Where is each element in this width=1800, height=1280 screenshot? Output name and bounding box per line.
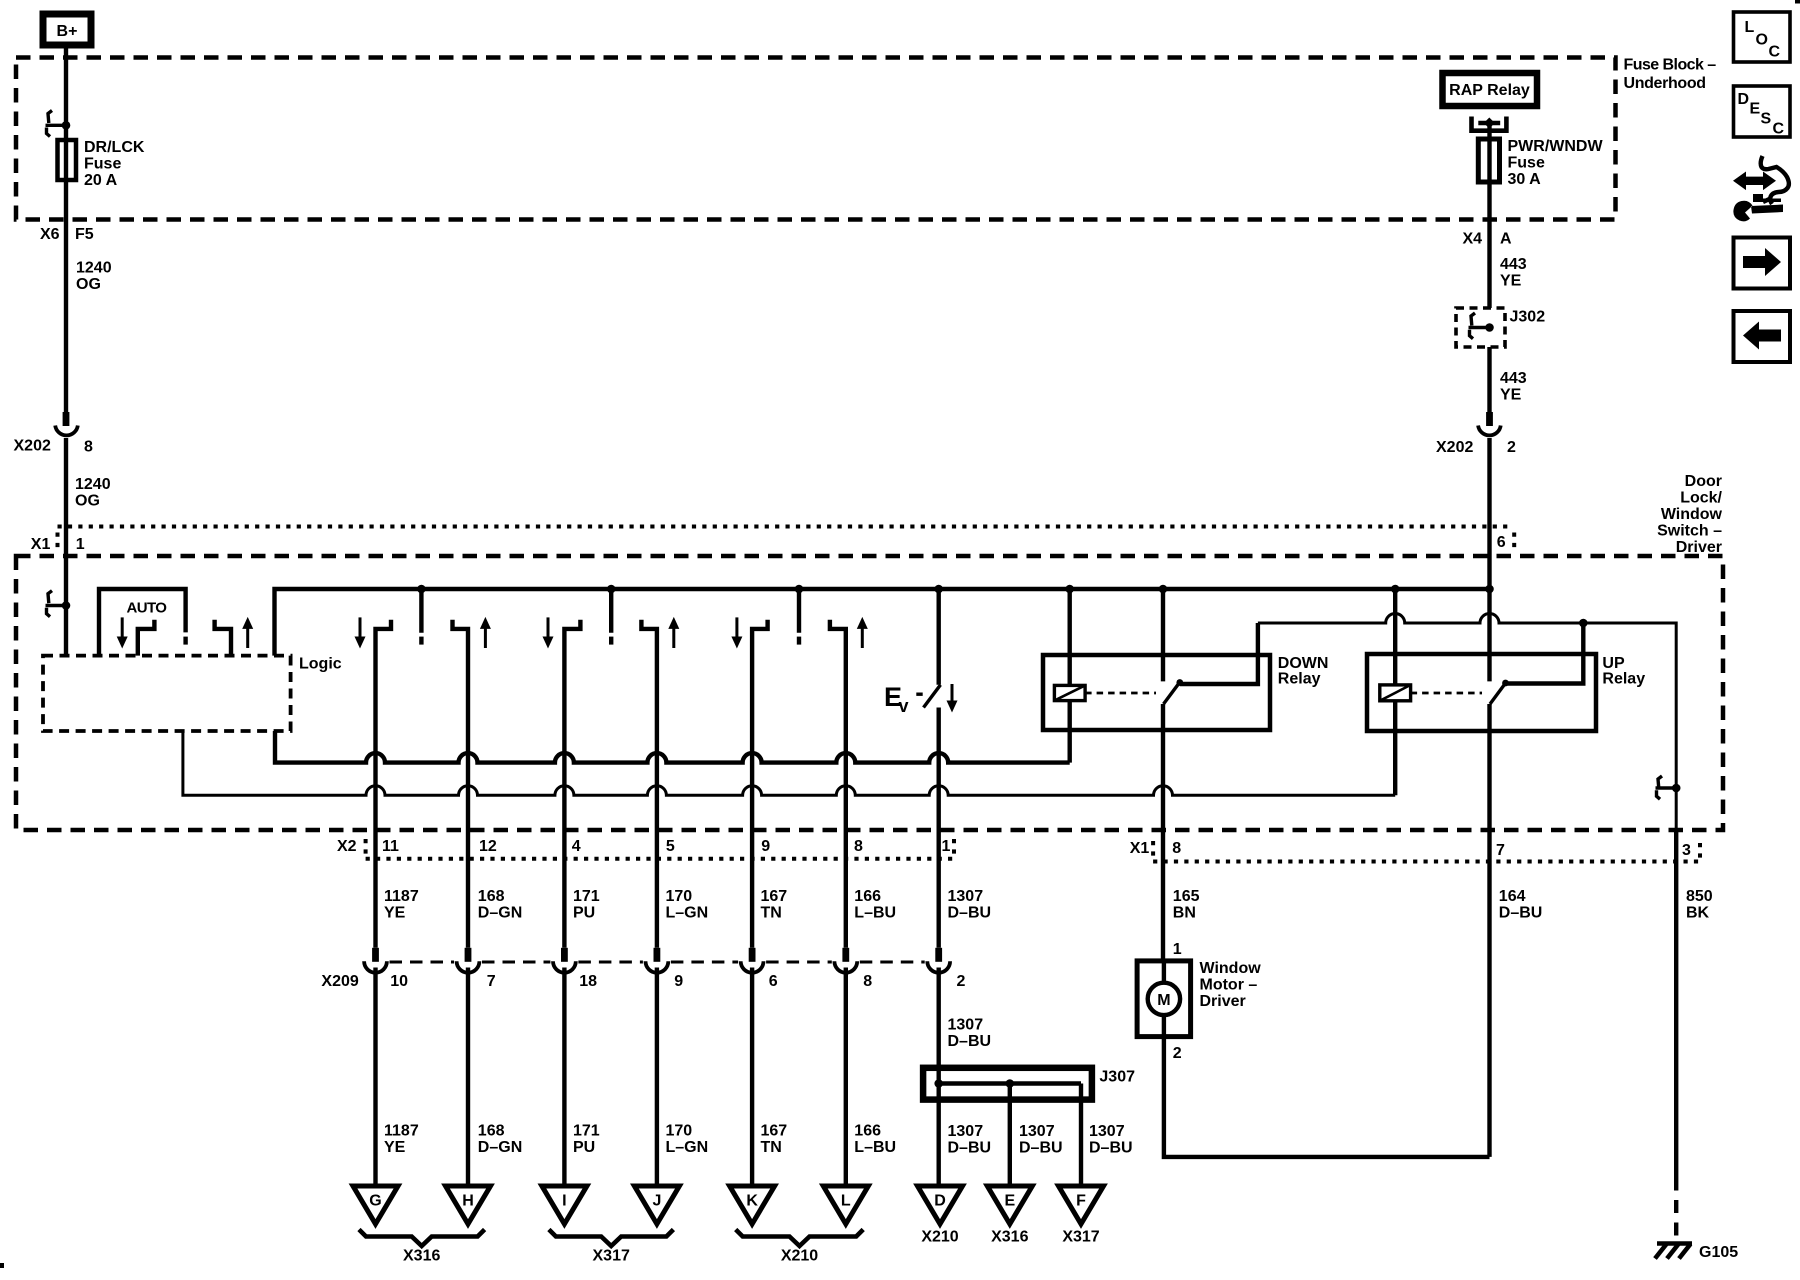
wire label 850 BK	[1686, 888, 1713, 922]
connector X209 pin 18	[553, 948, 597, 990]
svg-text:Logic: Logic	[299, 656, 342, 673]
connector X209 pin 6	[741, 948, 778, 990]
svg-text:X2: X2	[337, 838, 357, 855]
svg-text:1307: 1307	[948, 888, 984, 905]
svg-text:171: 171	[573, 1123, 600, 1140]
svg-text:1: 1	[76, 536, 85, 553]
arrow down (switch 3)	[731, 617, 742, 648]
connector X1 bottom row	[1130, 840, 1700, 862]
switch 2 up contact to X2-5	[641, 620, 657, 948]
wire X209-18 to I	[562, 968, 566, 1187]
svg-text:Driver: Driver	[1200, 993, 1246, 1010]
svg-text:Fuse Block –: Fuse Block –	[1624, 57, 1717, 74]
svg-text:B+: B+	[57, 23, 78, 40]
svg-text:OG: OG	[75, 493, 100, 510]
svg-text:J: J	[652, 1193, 661, 1210]
wire label 167 TN (upper)	[761, 888, 788, 922]
svg-text:Relay: Relay	[1602, 671, 1645, 688]
DOWN relay NC contact to ground link	[1180, 623, 1258, 684]
nav icon DESC	[1734, 86, 1791, 138]
svg-text:5: 5	[666, 838, 675, 855]
terminal triangle F	[1059, 1186, 1104, 1224]
connector X1 top row (dotted)	[31, 527, 1514, 554]
svg-text:1307: 1307	[1089, 1123, 1125, 1140]
AUTO switch frame	[99, 589, 186, 656]
svg-text:PU: PU	[573, 1139, 595, 1156]
svg-text:C: C	[1773, 121, 1785, 138]
svg-text:1307: 1307	[948, 1123, 984, 1140]
terminal triangle E	[987, 1186, 1032, 1224]
svg-text:C: C	[1769, 44, 1781, 61]
battery feed B+	[43, 14, 91, 45]
svg-text:166: 166	[854, 1123, 881, 1140]
svg-text:2: 2	[1173, 1045, 1182, 1062]
wire X209-10 to G	[373, 968, 377, 1187]
brace X317	[549, 1230, 674, 1265]
wire: B+ to fuse DR/LCK	[64, 45, 68, 140]
svg-text:TN: TN	[761, 905, 782, 922]
wire label 1307 D-BU (bottom, F)	[1089, 1123, 1133, 1157]
DOWN relay coil	[1054, 685, 1085, 700]
arrow down (express)	[947, 684, 958, 713]
svg-text:D–GN: D–GN	[478, 905, 522, 922]
terminal triangle G	[353, 1186, 398, 1224]
arrow down (switch 2)	[543, 617, 554, 648]
ground link line	[1258, 614, 1676, 831]
svg-text:RAP Relay: RAP Relay	[1449, 82, 1530, 99]
svg-text:PWR/WNDW: PWR/WNDW	[1508, 138, 1604, 155]
svg-text:L–BU: L–BU	[854, 905, 896, 922]
UP relay NC contact to ground link	[1506, 623, 1584, 684]
svg-text:E: E	[1004, 1193, 1015, 1210]
svg-text:DOWN: DOWN	[1278, 655, 1329, 672]
connector X4 pin A labels	[1463, 231, 1513, 248]
wire X209-2 to D	[937, 968, 941, 1187]
wire 1240 OG: X202 to switch assembly	[64, 438, 68, 656]
DOWN relay label	[1278, 655, 1329, 688]
svg-text:6: 6	[769, 973, 778, 990]
wire: DOWN relay output to motor (165 BN)	[1161, 704, 1165, 961]
svg-text:443: 443	[1500, 256, 1527, 273]
svg-text:X1: X1	[1130, 840, 1150, 857]
arrow down (switch 1)	[355, 617, 366, 648]
switch 2 pole	[609, 589, 613, 645]
terminal triangle I	[542, 1186, 587, 1224]
svg-text:X316: X316	[403, 1248, 440, 1265]
svg-text:Fuse: Fuse	[84, 156, 121, 173]
wire X209-7 to H	[466, 968, 470, 1187]
svg-text:168: 168	[478, 1123, 505, 1140]
UP relay coil to lower bus	[1393, 701, 1397, 796]
window motor driver	[1137, 961, 1191, 1037]
svg-text:L–GN: L–GN	[666, 905, 709, 922]
DOWN relay actuation link (dashed)	[1085, 692, 1156, 695]
wire label 170 L-GN (lower)	[666, 1123, 709, 1157]
svg-text:Relay: Relay	[1278, 671, 1321, 688]
svg-text:20 A: 20 A	[84, 172, 118, 189]
arrow up (switch 3)	[857, 617, 868, 648]
wire X209-6 to K	[750, 968, 754, 1187]
clip on 1240 OG inside switch	[46, 591, 71, 617]
svg-text:8: 8	[863, 973, 872, 990]
svg-text:12: 12	[479, 838, 497, 855]
nav icon next arrow	[1734, 238, 1791, 289]
junction dots on top bus	[417, 585, 1494, 594]
switch 3 down contact to X2-9	[752, 620, 768, 948]
fuse block underhood (dashed box)	[16, 58, 1616, 220]
svg-text:A: A	[1500, 231, 1512, 248]
wire: fuse to connector X202 pin 8	[64, 180, 68, 413]
wire 443 YE: X202 to UP relay fixed contact	[1487, 438, 1491, 681]
switch 1 down contact to X2-11	[376, 620, 392, 948]
svg-text:168: 168	[478, 888, 505, 905]
wire X209-9 to J	[655, 968, 659, 1187]
wire 443 YE: J302 to X202 pin 2	[1487, 347, 1491, 413]
upper bus: logic to DOWN relay coil	[275, 731, 1070, 763]
wire: motor pin 2 to UP relay output	[1164, 1037, 1490, 1157]
svg-text:AUTO: AUTO	[127, 600, 168, 617]
svg-text:D: D	[1738, 91, 1750, 108]
RAP relay output terminal brackets	[1472, 117, 1507, 141]
wire label 170 L-GN (upper)	[666, 888, 709, 922]
DOWN relay coil to upper bus	[1067, 701, 1071, 763]
svg-text:9: 9	[674, 973, 683, 990]
door lock / window switch - driver (dashed box)	[16, 556, 1723, 830]
X209 dashed connector line	[390, 961, 925, 964]
svg-text:UP: UP	[1602, 655, 1625, 672]
wire label 168 D-GN (upper)	[478, 888, 522, 922]
svg-text:L–GN: L–GN	[666, 1139, 709, 1156]
ground G105	[1655, 1244, 1738, 1262]
svg-text:v: v	[899, 696, 909, 716]
wire 850 BK to ground	[1674, 830, 1678, 1178]
svg-text:X210: X210	[781, 1248, 818, 1265]
connector X2 row	[337, 838, 954, 859]
svg-text:X317: X317	[1062, 1229, 1099, 1246]
AUTO up contact	[215, 620, 231, 656]
nav icon back arrow	[1734, 311, 1791, 362]
svg-text:X1: X1	[31, 536, 51, 553]
svg-text:170: 170	[666, 1123, 693, 1140]
wire label 167 TN (lower)	[761, 1123, 788, 1157]
svg-text:O: O	[1756, 32, 1768, 49]
wire label 443 YE (upper)	[1500, 256, 1527, 290]
svg-text:Lock/: Lock/	[1680, 490, 1722, 507]
fuse PWR/WNDW 30 A	[1478, 138, 1603, 188]
svg-text:2: 2	[957, 973, 966, 990]
connector X6 pin F5 labels	[40, 226, 94, 243]
connector X209 pin 2	[927, 948, 965, 990]
connector X209 pin 7	[457, 948, 496, 990]
terminal triangle K	[730, 1186, 775, 1224]
svg-text:D: D	[934, 1193, 946, 1210]
svg-text:4: 4	[572, 838, 581, 855]
page corner marks	[1795, 0, 1800, 4]
UP relay box	[1367, 654, 1596, 731]
svg-text:Switch –: Switch –	[1657, 523, 1722, 540]
arrow up (AUTO)	[242, 617, 253, 648]
wire label 1307 D-BU (upper)	[948, 888, 992, 922]
svg-text:Fuse: Fuse	[1508, 155, 1545, 172]
splice J302	[1456, 308, 1545, 347]
express-down switch Ev feed	[937, 589, 941, 685]
svg-text:Door: Door	[1685, 473, 1722, 490]
splice J307	[923, 1068, 1135, 1100]
brace X210	[736, 1230, 864, 1265]
svg-text:YE: YE	[384, 905, 406, 922]
svg-text:1187: 1187	[384, 1123, 419, 1140]
svg-text:164: 164	[1499, 888, 1526, 905]
svg-text:D–BU: D–BU	[948, 905, 992, 922]
connector X209 pin 9	[646, 948, 684, 990]
top supply bus	[275, 589, 1490, 656]
UP relay coil feed	[1393, 589, 1397, 685]
UP relay actuation link (dashed)	[1411, 692, 1482, 695]
dashed wire to G105	[1674, 1178, 1678, 1242]
wire label 171 PU (upper)	[573, 888, 600, 922]
wire label 168 D-GN (lower)	[478, 1123, 522, 1157]
wire label 1307 D-BU (bottom, E)	[1019, 1123, 1063, 1157]
svg-text:7: 7	[1496, 842, 1505, 859]
UP relay blade	[1490, 680, 1509, 704]
svg-text:2: 2	[1507, 439, 1516, 456]
svg-text:166: 166	[854, 888, 881, 905]
connector X202 pin 2	[1436, 412, 1516, 456]
svg-text:G: G	[369, 1193, 381, 1210]
svg-text:850: 850	[1686, 888, 1713, 905]
svg-text:11: 11	[382, 838, 399, 855]
svg-text:H: H	[462, 1193, 474, 1210]
clip on ground wire	[1656, 776, 1681, 799]
switch 3 pole	[797, 589, 801, 645]
svg-text:F: F	[1076, 1193, 1086, 1210]
terminal triangle H	[446, 1186, 491, 1224]
wire label 1240 OG (lower)	[75, 476, 111, 510]
arrow up (switch 1)	[480, 617, 491, 648]
junction dot ground link	[1579, 619, 1588, 628]
svg-text:10: 10	[390, 973, 408, 990]
svg-text:X6: X6	[40, 226, 60, 243]
svg-text:171: 171	[573, 888, 600, 905]
svg-text:1: 1	[942, 838, 951, 855]
svg-text:J307: J307	[1099, 1069, 1135, 1086]
switch 1 pole	[419, 589, 423, 645]
svg-text:D–BU: D–BU	[1019, 1140, 1063, 1157]
logic module (dashed box)	[43, 656, 342, 732]
brace X316	[359, 1230, 485, 1265]
DOWN relay coil feed	[1067, 589, 1071, 685]
svg-text:K: K	[746, 1193, 758, 1210]
svg-text:X210: X210	[921, 1229, 958, 1246]
terminal triangle L	[823, 1186, 868, 1224]
svg-text:BK: BK	[1686, 905, 1710, 922]
wire label 166 L-BU (upper)	[854, 888, 896, 922]
relay RAP Relay	[1443, 73, 1538, 106]
connector X202 pin 8	[14, 412, 94, 456]
nav icon diagnostics (arrows + wrench)	[1733, 156, 1789, 221]
clip on B+ feed	[46, 111, 71, 137]
wire X209-8 to L	[844, 968, 848, 1187]
svg-text:8: 8	[84, 439, 93, 456]
svg-text:1307: 1307	[948, 1017, 984, 1034]
svg-text:D–BU: D–BU	[1499, 905, 1543, 922]
svg-text:1: 1	[1173, 941, 1182, 958]
svg-text:X317: X317	[593, 1248, 630, 1265]
svg-text:167: 167	[761, 888, 788, 905]
svg-text:30 A: 30 A	[1508, 171, 1542, 188]
svg-text:165: 165	[1173, 888, 1200, 905]
UP relay coil	[1380, 685, 1411, 701]
svg-text:8: 8	[854, 838, 863, 855]
svg-text:443: 443	[1500, 370, 1527, 387]
svg-text:PU: PU	[573, 905, 595, 922]
svg-text:X202: X202	[1436, 439, 1473, 456]
svg-text:8: 8	[1172, 840, 1181, 857]
switch 1 up contact to X2-12	[453, 620, 469, 948]
svg-text:Motor –: Motor –	[1200, 977, 1258, 994]
connector X209 pin 8	[834, 948, 872, 990]
svg-text:L: L	[1745, 19, 1755, 36]
svg-text:170: 170	[666, 888, 693, 905]
terminal triangle D	[918, 1186, 963, 1224]
terminal triangle J	[634, 1186, 679, 1224]
wire label 1307 D-BU (mid, above J307)	[948, 1017, 992, 1051]
lower bus: logic to UP relay coil	[183, 731, 1395, 795]
svg-text:D–BU: D–BU	[948, 1140, 992, 1157]
svg-text:L: L	[841, 1193, 851, 1210]
label: Window Motor - Driver	[1200, 960, 1262, 1010]
svg-text:9: 9	[761, 838, 770, 855]
svg-text:1187: 1187	[384, 888, 419, 905]
svg-text:D–GN: D–GN	[478, 1139, 522, 1156]
svg-text:Window: Window	[1200, 960, 1262, 977]
svg-text:D–BU: D–BU	[1089, 1140, 1133, 1157]
wire J307 to E	[1008, 1084, 1012, 1187]
svg-text:E: E	[1750, 101, 1761, 118]
fuse DR/LCK 20 A	[58, 139, 145, 189]
wire label 166 L-BU (lower)	[854, 1123, 896, 1157]
connector X209 pin 10	[364, 948, 408, 990]
svg-text:J302: J302	[1510, 309, 1546, 326]
svg-text:X202: X202	[14, 438, 51, 455]
svg-text:Underhood: Underhood	[1624, 75, 1706, 92]
switch 3 up contact to X2-8	[830, 620, 846, 948]
wire label 171 PU (lower)	[573, 1123, 600, 1157]
svg-text:X4: X4	[1463, 231, 1483, 248]
nav icon LOC	[1734, 12, 1791, 62]
svg-text:YE: YE	[1500, 387, 1522, 404]
label: Door Lock/ Window Switch - Driver	[1657, 473, 1722, 556]
label: Fuse Block - Underhood	[1624, 57, 1717, 93]
svg-text:BN: BN	[1173, 905, 1196, 922]
DOWN relay fixed contact feed	[1161, 589, 1165, 681]
svg-text:D–BU: D–BU	[948, 1033, 992, 1050]
wire J307 to F	[1079, 1084, 1083, 1187]
AUTO down contact	[138, 620, 155, 656]
express-down switch Ev	[884, 682, 941, 716]
wire label 1187 YE (upper)	[384, 888, 419, 922]
svg-text:YE: YE	[384, 1139, 406, 1156]
svg-text:1240: 1240	[76, 260, 112, 277]
svg-text:DR/LCK: DR/LCK	[84, 139, 145, 156]
wire label 165 BN	[1173, 888, 1200, 922]
wire: UP relay output (164 D-BU)	[1487, 704, 1491, 1157]
svg-text:3: 3	[1682, 842, 1691, 859]
arrow up (switch 2)	[668, 617, 679, 648]
arrow down (AUTO)	[117, 617, 128, 648]
svg-text:18: 18	[579, 973, 597, 990]
svg-text:1240: 1240	[75, 476, 111, 493]
svg-text:S: S	[1761, 111, 1772, 128]
svg-text:1307: 1307	[1019, 1123, 1055, 1140]
svg-text:M: M	[1157, 992, 1170, 1009]
svg-text:TN: TN	[761, 1139, 782, 1156]
svg-text:X316: X316	[991, 1229, 1028, 1246]
svg-text:YE: YE	[1500, 273, 1522, 290]
wire 443 YE: fuse to J302	[1487, 182, 1491, 308]
svg-text:L–BU: L–BU	[854, 1139, 896, 1156]
svg-text:I: I	[562, 1193, 566, 1210]
wire: Ev switch to X2-1	[937, 708, 941, 948]
svg-text:Driver: Driver	[1676, 539, 1722, 556]
svg-text:G105: G105	[1699, 1244, 1738, 1261]
DOWN relay blade	[1164, 679, 1184, 704]
wire label 164 D-BU	[1499, 888, 1543, 922]
svg-text:167: 167	[761, 1123, 788, 1140]
DOWN relay box	[1043, 655, 1270, 730]
wire label 1307 D-BU (bottom, D)	[948, 1123, 992, 1157]
wire label 443 YE (lower)	[1500, 370, 1527, 404]
wire label 1187 YE (lower)	[384, 1123, 419, 1157]
svg-text:Window: Window	[1661, 506, 1723, 523]
svg-text:F5: F5	[75, 226, 94, 243]
UP relay label	[1602, 655, 1645, 688]
svg-text:OG: OG	[76, 276, 101, 293]
svg-text:7: 7	[487, 973, 496, 990]
wire label 1240 OG (upper)	[76, 260, 112, 294]
svg-text:6: 6	[1497, 534, 1506, 551]
switch 2 down contact to X2-4	[564, 620, 580, 948]
svg-text:X209: X209	[321, 973, 358, 990]
